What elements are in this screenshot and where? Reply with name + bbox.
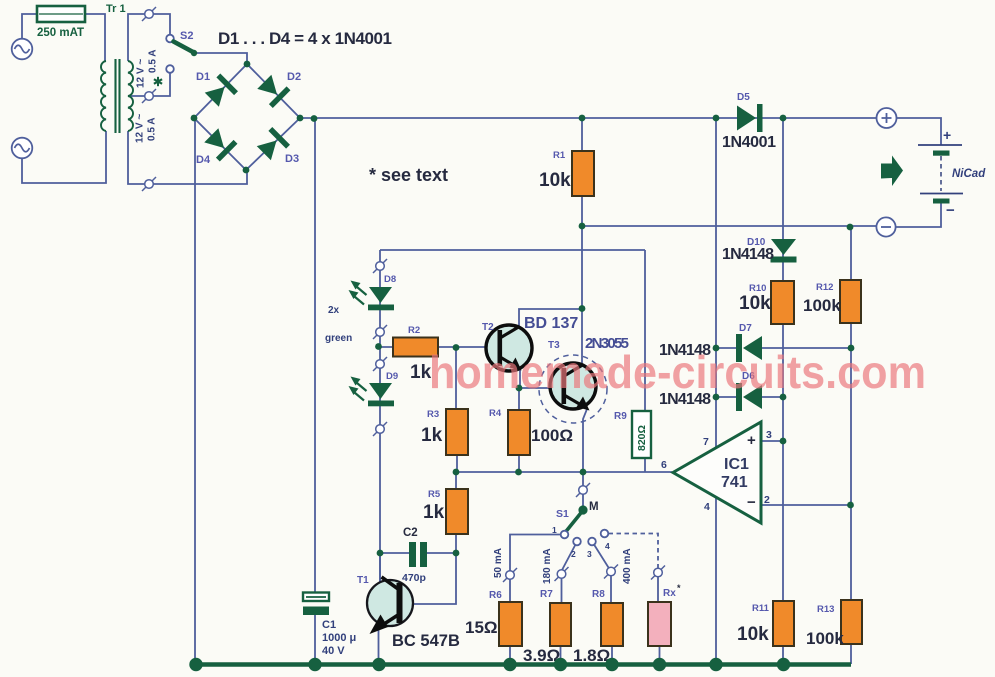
bridge diamond wires [194, 64, 300, 170]
svg-text:R1: R1 [553, 150, 566, 161]
wire AC2 to primary bottom [22, 131, 106, 183]
resistor R2 1k [393, 338, 438, 357]
fuse F1 250mAT [37, 6, 85, 22]
svg-text:D9: D9 [386, 371, 398, 382]
svg-text:6: 6 [661, 459, 667, 471]
wire R2 leads to T2 base [380, 346, 486, 348]
svg-text:D1: D1 [196, 71, 210, 83]
wire LED chain top to R9 top [380, 250, 645, 411]
switch S2 [166, 35, 174, 43]
svg-text:D7: D7 [739, 323, 752, 334]
svg-text:S1: S1 [556, 508, 569, 520]
svg-text:741: 741 [721, 474, 748, 491]
svg-text:470p: 470p [402, 572, 426, 584]
transformer secondary coil [128, 61, 133, 131]
svg-text:D3: D3 [285, 153, 299, 165]
resistor R3 1k [446, 409, 468, 455]
svg-text:1k: 1k [421, 425, 443, 446]
transistor T2 BD137 [486, 325, 532, 371]
svg-text:R9: R9 [614, 411, 627, 422]
svg-text:4: 4 [704, 501, 710, 513]
wire bridge output down to C1 [314, 119, 316, 663]
wire battery positive loop [896, 118, 941, 145]
svg-text:1.8Ω: 1.8Ω [573, 646, 610, 665]
wire R12 R13 vertical branch [850, 227, 852, 664]
wire R9 bottom lead [644, 458, 646, 472]
wire R11 bottom lead [782, 646, 784, 663]
resistor R6 15ohm [499, 602, 522, 646]
diode D10 1N4148 [771, 239, 796, 255]
svg-text:T1: T1 [357, 575, 369, 586]
svg-text:7: 7 [703, 436, 709, 448]
wire D6 leads [716, 396, 783, 398]
wire S1 contact4 dashed to Rx [609, 534, 659, 567]
junction dots [244, 61, 251, 68]
svg-text:2x: 2x [328, 305, 340, 316]
svg-text:R13: R13 [817, 604, 834, 615]
svg-text:S2: S2 [180, 30, 193, 42]
wire R3 bottom lead [456, 455, 458, 472]
resistor R12 100k [840, 280, 861, 323]
diode D2 [255, 73, 290, 108]
S1 contact 3 [588, 538, 596, 546]
resistor R8 1.8ohm [601, 603, 623, 646]
svg-text:4: 4 [605, 541, 610, 551]
svg-text:R5: R5 [428, 489, 441, 500]
output terminal minus [876, 217, 895, 236]
svg-text:T2: T2 [482, 322, 494, 333]
diode D3 [255, 127, 290, 162]
svg-text:D4: D4 [196, 154, 211, 166]
diode D6 1N4148 [736, 383, 742, 411]
resistor R13 100k [841, 600, 862, 644]
diode D7 1N4148 [736, 334, 742, 362]
svg-text:1N4148: 1N4148 [722, 246, 774, 263]
svg-text:1: 1 [552, 525, 557, 535]
wire shunt resistor bottom leads [510, 646, 660, 664]
S1 contact 1 [561, 531, 569, 539]
resistor R10 10k [771, 281, 794, 324]
rotary switch S1 [576, 483, 590, 497]
wire op-amp pin2 stub [761, 504, 851, 506]
wire battery negative loop [896, 203, 941, 227]
svg-text:10k: 10k [739, 293, 771, 314]
svg-text:* see text: * see text [369, 165, 448, 185]
svg-text:D2: D2 [287, 71, 301, 83]
resistor R7 3.9ohm [550, 603, 571, 646]
svg-text:1N4001: 1N4001 [722, 134, 776, 151]
wire T1 collector and emitter leads [379, 553, 381, 664]
wire R4 bottom lead [518, 455, 520, 472]
ground rail dots [189, 658, 202, 671]
transistor T1 BC547B (mirrored) [367, 580, 413, 626]
wire T2 emitter to T3 base and R4 [519, 370, 550, 410]
ground bottom rail [196, 662, 851, 667]
terminal above Rx [651, 566, 665, 580]
wire D10 R10 vertical branch [782, 118, 784, 601]
svg-text:BC 547B: BC 547B [392, 632, 460, 650]
svg-text:R2: R2 [408, 325, 420, 336]
svg-text:−: − [946, 202, 955, 219]
terminal above R7 [555, 567, 569, 581]
wire op-amp pin4 to bottom rail [715, 498, 717, 664]
wire node to S1 pole [582, 472, 584, 506]
svg-text:green: green [325, 333, 352, 344]
transistor T3 2N3055 [539, 355, 607, 423]
wire collector node vertical to T3 [581, 226, 583, 363]
S1 contact 4 [601, 530, 609, 538]
op-amp IC1 741 [673, 422, 761, 523]
charge direction arrow [881, 156, 903, 187]
wire T2 collector to node [519, 309, 582, 326]
LED chain terminal below D9 [373, 422, 387, 436]
svg-text:3: 3 [766, 429, 772, 441]
svg-text:D5: D5 [737, 92, 750, 103]
svg-text:R12: R12 [816, 282, 833, 293]
wire C2 left lead [380, 552, 456, 554]
svg-text:10k: 10k [539, 170, 571, 191]
svg-text:1000 μ: 1000 μ [322, 632, 356, 644]
resistor R1 10k [572, 151, 594, 196]
asterisk green near tap [157, 77, 159, 86]
svg-text:R11: R11 [752, 603, 770, 614]
LED D9 green [369, 383, 392, 399]
svg-text:2: 2 [571, 549, 576, 559]
wire horizontal node R1-bottom to minus terminal [582, 225, 876, 227]
svg-text:R8: R8 [592, 589, 605, 600]
svg-text:180 mA: 180 mA [542, 548, 553, 584]
svg-text:C2: C2 [403, 527, 418, 539]
output terminal plus [877, 108, 897, 128]
svg-text:M: M [589, 501, 599, 513]
LED chain terminal above D9 [373, 357, 387, 371]
svg-text:40 V: 40 V [322, 645, 345, 657]
svg-text:100Ω: 100Ω [531, 426, 573, 445]
svg-text:3: 3 [587, 549, 592, 559]
LED D9 emission arrows [357, 383, 367, 391]
resistor Rx pink [648, 602, 671, 646]
wire R3 top lead [455, 347, 457, 409]
LED D8 green [369, 287, 392, 303]
tap terminal bottom [142, 177, 156, 191]
wire R5 leads and C2 junction [413, 472, 456, 604]
wire emitter node horizontal to op-amp output [456, 471, 672, 473]
svg-text:820Ω: 820Ω [636, 425, 648, 451]
tap terminal middle [142, 89, 156, 103]
wire top positive rail [300, 117, 876, 119]
svg-text:D1 . . . D4 = 4 x 1N4001: D1 . . . D4 = 4 x 1N4001 [218, 29, 392, 48]
svg-text:NiCad: NiCad [952, 168, 986, 180]
diode D4 [202, 126, 237, 161]
svg-text:R3: R3 [427, 409, 439, 420]
LED chain terminal above D8 [373, 259, 387, 273]
wire AC input to fuse [22, 14, 105, 61]
svg-text:0.5 A: 0.5 A [147, 117, 158, 141]
LED D8 emission arrows [357, 287, 367, 295]
wire R1 leads [581, 118, 583, 226]
resistor R4 100ohm [508, 410, 530, 455]
wire long left vertical from bridge left vertex to bottom rail [194, 118, 196, 663]
svg-text:12 V ~: 12 V ~ [135, 114, 146, 143]
wire S1 contact3 to R8 [594, 545, 611, 604]
svg-text:Rx: Rx [663, 588, 676, 599]
svg-text:BD 137: BD 137 [524, 315, 578, 332]
svg-text:250 mAT: 250 mAT [37, 27, 84, 39]
svg-text:R6: R6 [489, 590, 502, 601]
wire S2 pole to bridge top vertex [196, 53, 247, 64]
svg-text:+: + [943, 127, 951, 143]
svg-text:−: − [747, 494, 756, 511]
svg-text:50 mA: 50 mA [493, 548, 504, 578]
svg-text:Tr 1: Tr 1 [106, 3, 126, 15]
wire D7 leads [716, 347, 851, 349]
capacitor C1 1000u electrolytic [303, 593, 329, 602]
LED chain terminal below D8 [373, 325, 387, 339]
wire S1 contact2 to R7 [562, 545, 576, 604]
svg-text:15Ω: 15Ω [465, 618, 498, 637]
svg-text:100k: 100k [806, 629, 844, 648]
transformer core [114, 59, 116, 133]
capacitor C2 470p [409, 542, 416, 567]
transformer primary coil [101, 61, 106, 131]
svg-text:12 V ~: 12 V ~ [136, 59, 147, 88]
battery NiCad [918, 144, 962, 146]
svg-text:R7: R7 [540, 589, 553, 600]
wire secondary mid tap to S2 lower contact [128, 73, 170, 96]
wire secondary top tap to S2 [128, 14, 170, 61]
resistor R5 1k [446, 489, 468, 534]
svg-text:400 mA: 400 mA [622, 548, 633, 584]
wire op-amp pin3 stub [761, 440, 783, 442]
svg-text:0.5 A: 0.5 A [148, 49, 159, 73]
svg-text:10k: 10k [737, 624, 769, 645]
svg-text:IC1: IC1 [724, 456, 749, 473]
svg-text:C1: C1 [322, 619, 336, 631]
svg-text:*: * [677, 583, 681, 593]
wire LED chain vertical [379, 250, 381, 581]
svg-text:+: + [747, 432, 756, 449]
tap terminal top (circle-slash) [142, 7, 156, 21]
svg-text:100k: 100k [803, 296, 841, 315]
AC source upper [12, 39, 33, 60]
wire secondary bottom tap to bridge bottom [128, 131, 247, 184]
AC source lower [12, 138, 33, 159]
svg-text:R4: R4 [489, 408, 502, 419]
resistor R9 820ohm outline [632, 411, 651, 458]
svg-text:2: 2 [764, 494, 770, 506]
wire T3 emitter down [583, 409, 587, 472]
svg-text:homemade-circuits.com: homemade-circuits.com [429, 346, 926, 398]
wire op-amp pin7 supply vertical [715, 118, 717, 447]
wire S1 contact1 to R6 [510, 535, 561, 603]
svg-text:1k: 1k [423, 502, 445, 523]
S1 contact 2 [573, 538, 581, 546]
diode D1 [203, 74, 238, 109]
terminal above R6 [503, 568, 517, 582]
resistor R11 10k [773, 601, 794, 646]
svg-text:D8: D8 [384, 274, 396, 285]
diode D5 1N4001 [737, 106, 756, 131]
terminal above R8 [604, 565, 618, 579]
